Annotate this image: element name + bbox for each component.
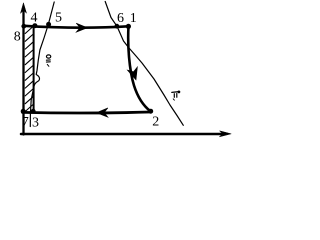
svg-text:1: 1 (130, 11, 137, 26)
svg-text:6: 6 (117, 11, 124, 26)
arrow on bottom edge (97, 108, 108, 117)
svg-text:3: 3 (32, 116, 39, 131)
node 4 dot (32, 23, 37, 28)
right symbol blob (178, 91, 181, 94)
svg-text:7: 7 (22, 115, 29, 130)
node 5 dot (46, 22, 51, 27)
node 2 dot (148, 109, 153, 114)
left thin diagonal line (through 5, 7) (30, 2, 54, 127)
node 6 dot (115, 24, 120, 29)
x-axis arrowhead (220, 131, 232, 137)
right symbol (pi with bar) top bar (172, 91, 179, 94)
arrow on top edge (76, 23, 87, 32)
y-axis arrowhead (21, 3, 27, 13)
y-axis (22, 8, 24, 135)
left symbol (Q=0 rotated) ellipse (46, 55, 50, 58)
node 7 dot (21, 109, 26, 114)
cycle top edge 4-5-6-1 (24, 26, 129, 28)
x-axis (21, 133, 223, 136)
cycle bottom edge 2-3-7 (23, 112, 151, 113)
left symbol tick (47, 64, 49, 66)
arrow on right edge (127, 67, 137, 80)
node 8 dot (21, 24, 26, 29)
svg-text:5: 5 (55, 11, 62, 26)
hatching (25, 27, 33, 112)
svg-text:4: 4 (31, 11, 38, 26)
node 3 dot (31, 109, 36, 114)
left symbol equals bars (46, 59, 50, 61)
cycle right edge 1-2 (128, 26, 150, 111)
left wall line 4-3 (33, 26, 35, 113)
svg-text:8: 8 (14, 30, 21, 45)
right symbol legs (173, 94, 175, 98)
node 1 dot (126, 24, 131, 29)
right thin diagonal line (through 6, 2) (105, 2, 183, 126)
svg-text:2: 2 (152, 115, 159, 130)
right symbol tick (173, 99, 174, 100)
